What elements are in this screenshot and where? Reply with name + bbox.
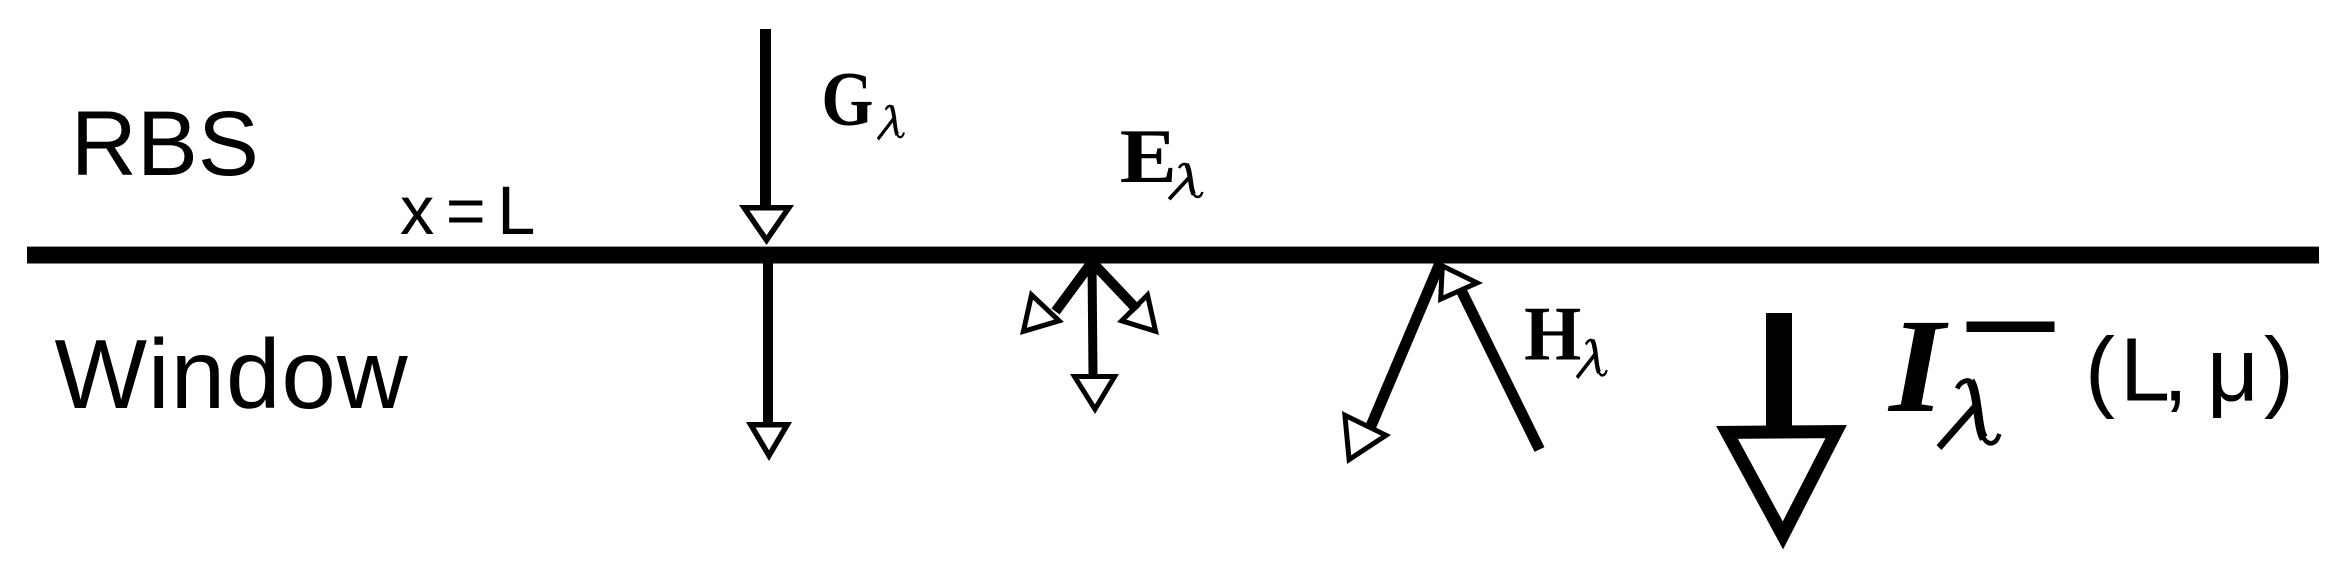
svg-text:H: H [1524, 292, 1581, 377]
svg-text:I: I [1887, 292, 1949, 440]
svg-text:RBS: RBS [71, 93, 259, 195]
svg-text:x=L: x=L [400, 172, 547, 249]
svg-text:Window: Window [55, 319, 409, 429]
svg-text:(L,μ): (L,μ) [2085, 321, 2299, 421]
svg-text:G: G [821, 56, 873, 141]
svg-text:E: E [1120, 114, 1177, 199]
